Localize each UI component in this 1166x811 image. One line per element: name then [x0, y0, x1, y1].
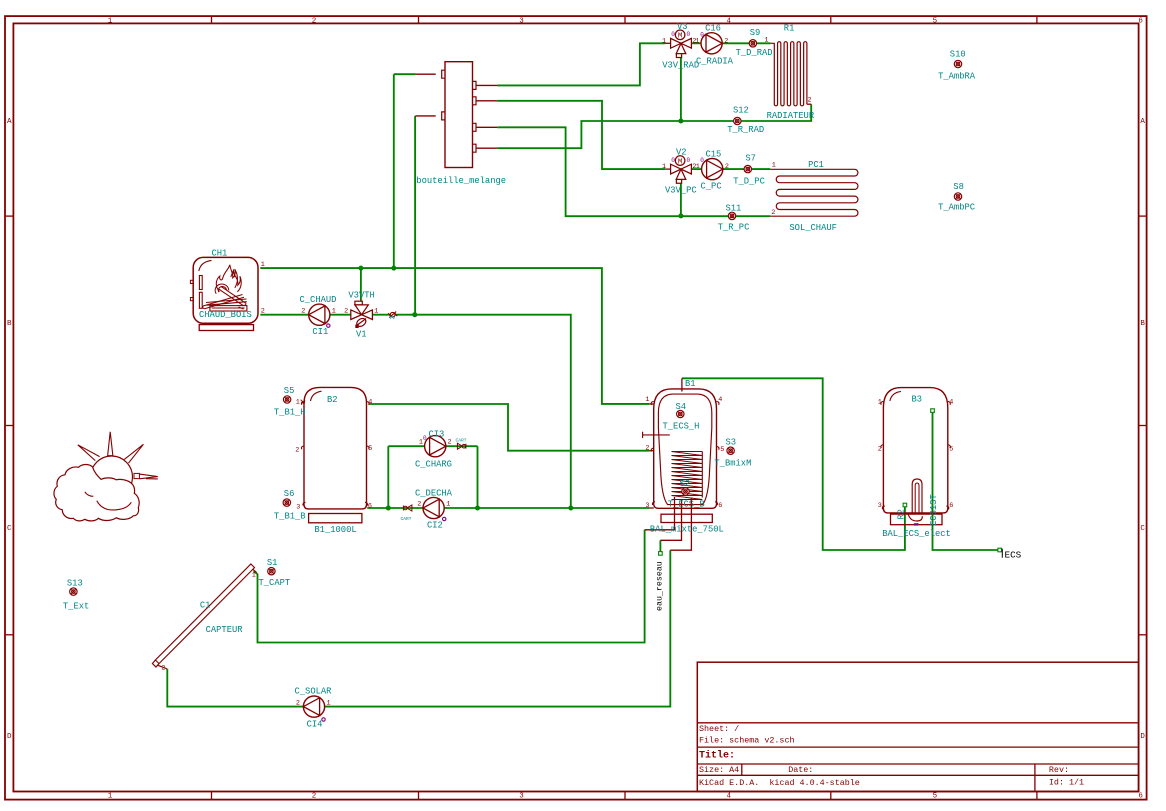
svg-text:KiCad E.D.A. kicad 4.0.4-stab: KiCad E.D.A. kicad 4.0.4-stable — [699, 778, 860, 788]
svg-text:M: M — [678, 159, 683, 167]
svg-text:5: 5 — [949, 445, 953, 453]
svg-text:T_AmbRA: T_AmbRA — [938, 71, 976, 81]
wire collector C1 pin 2 down to solar return — [167, 669, 303, 707]
svg-text:1: 1 — [764, 37, 768, 45]
valve V3 V3V_RAD — [665, 30, 691, 58]
svg-text:T_Ext: T_Ext — [63, 602, 89, 612]
svg-text:2: 2 — [295, 446, 299, 454]
svg-text:S9: S9 — [750, 28, 761, 38]
svg-text:0: 0 — [671, 157, 675, 164]
svg-text:T_ECS_H: T_ECS_H — [663, 422, 700, 432]
svg-text:T_D_RAD: T_D_RAD — [736, 48, 773, 58]
svg-text:1: 1 — [252, 571, 256, 579]
wire charge loop left vertical — [387, 446, 389, 508]
svg-text:6: 6 — [949, 502, 953, 510]
sensor S1 T_CAPT — [268, 568, 275, 575]
svg-text:2: 2 — [312, 792, 317, 800]
wire floor return T_R_PC to bottle pin R3 — [497, 127, 770, 216]
svg-text:M: M — [678, 33, 683, 41]
svg-text:2: 2 — [261, 308, 265, 316]
svg-text:1: 1 — [662, 37, 666, 45]
svg-text:Id: 1/1: Id: 1/1 — [1049, 778, 1084, 788]
tank B3 BAL_ECS_elect — [881, 388, 950, 526]
svg-text:C_CHARG: C_CHARG — [415, 459, 452, 469]
svg-text:2: 2 — [645, 444, 649, 452]
svg-text:C_PC: C_PC — [701, 182, 722, 192]
junction discharge line / charge right vertical — [475, 506, 480, 511]
wire solar return pump CI4 to tank B1 coil outlet — [325, 550, 671, 706]
svg-text:D: D — [7, 733, 12, 741]
svg-text:4: 4 — [949, 398, 953, 406]
check valve CAR (charge) — [457, 443, 466, 449]
svg-text:C1: C1 — [200, 601, 211, 611]
svg-text:1: 1 — [696, 163, 700, 171]
svg-text:1: 1 — [261, 261, 265, 269]
pump C15 C_PC — [702, 159, 723, 180]
svg-text:1: 1 — [108, 792, 113, 800]
svg-text:C: C — [1140, 525, 1145, 533]
wire valve V2 bottom port riser — [680, 184, 682, 216]
svg-text:CI4: CI4 — [307, 720, 323, 730]
svg-text:S8: S8 — [953, 182, 964, 192]
svg-text:V3VTH: V3VTH — [348, 291, 374, 301]
svg-text:CAR?: CAR? — [401, 516, 412, 522]
sensor S10 T_AmbRA — [954, 60, 961, 67]
svg-text:C15: C15 — [706, 150, 722, 160]
valve V2 V3V_PC — [665, 156, 691, 184]
svg-text:3: 3 — [390, 316, 397, 320]
svg-text:C: C — [7, 525, 12, 533]
svg-text:V1: V1 — [356, 330, 367, 340]
svg-text:S10: S10 — [950, 50, 966, 60]
svg-text:0: 0 — [687, 31, 691, 38]
junction discharge line / charge left vertical — [386, 506, 391, 511]
svg-text:6: 6 — [1138, 18, 1143, 26]
svg-text:1: 1 — [662, 163, 666, 171]
svg-text:CHAUD_BOIS: CHAUD_BOIS — [199, 310, 252, 320]
svg-text:6: 6 — [1138, 792, 1143, 800]
svg-text:CI1: CI1 — [312, 327, 328, 337]
pump C16 C_RADIA — [701, 33, 722, 54]
svg-text:A: A — [7, 118, 12, 126]
sensor S7 T_D_PC — [744, 165, 751, 172]
svg-text:4: 4 — [368, 398, 372, 406]
svg-text:Date:: Date: — [788, 765, 813, 775]
svg-text:C_CHAUD: C_CHAUD — [300, 295, 337, 305]
wire discharge line pump CI2 to tank B1 pin 3 — [444, 507, 649, 509]
svg-text:S1: S1 — [267, 558, 278, 568]
svg-text:1: 1 — [419, 439, 423, 447]
svg-text:C_SOLAR: C_SOLAR — [295, 687, 333, 697]
wire between valve V2 and pump C15 — [692, 168, 702, 170]
svg-text:0: 0 — [423, 435, 427, 442]
wire floor supply from bottle pin R2 to valve V2 — [497, 101, 665, 169]
svg-text:C16: C16 — [705, 23, 721, 33]
svg-text:Title:: Title: — [699, 750, 735, 762]
svg-text:B1_1000L: B1_1000L — [314, 525, 356, 535]
svg-text:Rev:: Rev: — [1049, 765, 1069, 775]
svg-text:B2: B2 — [327, 395, 338, 405]
mixing bottle bouteille_melange — [415, 62, 497, 168]
svg-text:2: 2 — [878, 445, 882, 453]
sensor S11 T_R_PC — [728, 212, 735, 219]
junction boiler supply / V1 top riser — [358, 266, 363, 271]
wire valve V1 output to down elbow — [372, 315, 571, 508]
wire radiator supply from bottle pin R1 to valve V3 — [497, 43, 665, 85]
solar collector C1 CAPTEUR — [152, 564, 256, 669]
svg-text:T_B1_H: T_B1_H — [274, 407, 306, 417]
svg-text:S5: S5 — [284, 386, 295, 396]
svg-text:B: B — [7, 320, 12, 328]
svg-text:A: A — [1140, 118, 1145, 126]
sensor S2 T_ECS_B — [682, 488, 689, 495]
svg-text:2: 2 — [771, 209, 775, 217]
svg-text:T_BmixM: T_BmixM — [714, 458, 751, 468]
sun — [78, 432, 158, 498]
sensor S12 T_R_RAD — [734, 117, 741, 124]
junction boiler supply / bottle L1 riser — [391, 266, 396, 271]
svg-text:CI3: CI3 — [429, 429, 445, 439]
sensor S3 T_BmixM — [727, 447, 734, 454]
svg-text:0: 0 — [687, 157, 691, 164]
wire eau_reseau stub under tank B1 — [659, 540, 661, 552]
svg-text:R2: R2 — [897, 509, 907, 520]
floor coil PC1 SOL_CHAUF — [770, 169, 858, 216]
svg-text:D: D — [1140, 733, 1145, 741]
svg-text:1: 1 — [878, 398, 882, 406]
svg-text:S13: S13 — [67, 579, 83, 589]
tank B1 BAL_mixte_750L — [643, 378, 719, 550]
svg-text:4: 4 — [718, 396, 722, 404]
pump CI2 C_DECHA — [423, 497, 444, 518]
junction radiator return / V3 riser — [678, 119, 683, 124]
purge valve 3 — [388, 312, 397, 318]
svg-text:6: 6 — [718, 502, 722, 510]
wire tank B2 pin 4 to tank B1 pin 2 — [369, 404, 650, 451]
svg-text:SOL_CHAUF: SOL_CHAUF — [789, 223, 837, 233]
wire valve V3 bottom port riser — [680, 58, 682, 121]
svg-text:1: 1 — [695, 37, 699, 45]
sensor S13 T_Ext — [70, 588, 77, 595]
svg-text:2: 2 — [344, 308, 348, 316]
svg-text:BAL_mixte_750L: BAL_mixte_750L — [650, 525, 724, 535]
wire tank B1 hot water out to tank B3 — [682, 378, 905, 550]
wire collector C1 pin 1 to tank B1 coil inlet — [254, 530, 645, 643]
global label ECS — [1002, 549, 1021, 561]
pump CI1 C_CHAUD — [309, 304, 330, 325]
wire boiler CH1 supply to tank B1 pin 1 — [260, 268, 649, 404]
junction floor return / V2 riser — [678, 213, 683, 218]
svg-text:5: 5 — [720, 446, 724, 454]
svg-text:RADIATEUR: RADIATEUR — [767, 111, 815, 121]
svg-text:3: 3 — [645, 502, 649, 510]
svg-text:1: 1 — [296, 398, 300, 406]
svg-text:2: 2 — [808, 97, 812, 105]
cloud — [54, 464, 139, 520]
wire radiator return T_R_RAD to bottle pin R4 — [497, 104, 811, 148]
wire tank B3 outlet to ECS label — [933, 412, 998, 550]
svg-text:1: 1 — [374, 308, 378, 316]
svg-text:2: 2 — [301, 308, 305, 316]
svg-text:2: 2 — [448, 439, 452, 447]
svg-text:T_ECS_B: T_ECS_B — [668, 500, 705, 510]
svg-text:S11: S11 — [726, 204, 742, 214]
svg-text:CI2: CI2 — [427, 520, 443, 530]
wire pump CI1 to valve V1 — [330, 314, 351, 316]
sensor S4 T_ECS_H — [677, 410, 684, 417]
svg-text:V2: V2 — [676, 148, 687, 158]
svg-text:S12: S12 — [733, 106, 749, 116]
svg-text:T_B1_B: T_B1_B — [274, 511, 306, 521]
wire charge loop upper line through pump CI3 — [388, 445, 477, 447]
wire bottle pin L2 down to valve V1 output line — [414, 116, 416, 315]
wire discharge line B2 pin 6 to pump CI2 — [367, 507, 423, 509]
svg-text:3: 3 — [519, 18, 524, 26]
svg-text:B: B — [1140, 320, 1145, 328]
svg-text:S3: S3 — [726, 438, 737, 448]
svg-text:B3: B3 — [912, 395, 923, 405]
svg-text:3: 3 — [878, 502, 882, 510]
svg-text:V3V_PC: V3V_PC — [665, 186, 697, 196]
sensor S6 T_B1_B — [283, 499, 290, 506]
svg-text:File: schema v2.sch: File: schema v2.sch — [699, 736, 795, 746]
svg-text:T_AmbPC: T_AmbPC — [938, 203, 975, 213]
pump CI3 C_CHARG — [425, 436, 446, 457]
svg-text:S6: S6 — [284, 489, 295, 499]
svg-text:2: 2 — [296, 699, 300, 707]
svg-text:Size: A4: Size: A4 — [699, 765, 739, 775]
svg-text:1: 1 — [772, 162, 776, 170]
valve V1 V3VTH — [351, 301, 373, 328]
svg-text:5: 5 — [933, 18, 938, 26]
svg-text:2: 2 — [417, 500, 421, 508]
svg-text:ECS1ST: ECS1ST — [929, 494, 939, 526]
sensor S9 T_D_RAD — [749, 40, 756, 47]
svg-text:ECS: ECS — [1005, 550, 1022, 561]
svg-text:S4: S4 — [676, 402, 687, 412]
svg-text:1: 1 — [108, 18, 113, 26]
svg-text:B1: B1 — [685, 379, 696, 389]
svg-text:R1: R1 — [784, 23, 795, 33]
svg-text:BAL_ECS_elect: BAL_ECS_elect — [882, 529, 951, 539]
svg-text:3: 3 — [519, 792, 524, 800]
svg-text:4: 4 — [727, 792, 732, 800]
radiator R1 RADIATEUR — [771, 42, 812, 106]
wire pump C16 to radiator R1 pin 1 — [722, 42, 770, 44]
svg-text:5: 5 — [368, 445, 372, 453]
wire bottle pin L1 stub — [394, 73, 416, 75]
wire between valve V3 and pump C16 — [692, 42, 701, 44]
svg-text:CAR?: CAR? — [456, 437, 467, 443]
svg-text:V3V_RAD: V3V_RAD — [662, 61, 699, 71]
wire riser to valve V1 top port — [360, 268, 362, 301]
wire pump C15 to floor coil PC1 pin 1 — [723, 168, 770, 170]
pump CI4 C_SOLAR — [303, 696, 324, 717]
svg-text:T_R_PC: T_R_PC — [718, 222, 750, 232]
svg-text:CAPTEUR: CAPTEUR — [206, 625, 244, 635]
svg-text:2: 2 — [312, 18, 317, 26]
svg-text:2: 2 — [161, 665, 165, 673]
wire charge loop right vertical — [477, 446, 479, 508]
svg-text:S7: S7 — [745, 154, 756, 164]
svg-text:bouteille_melange: bouteille_melange — [416, 176, 506, 186]
svg-text:2: 2 — [724, 37, 728, 45]
svg-text:1: 1 — [327, 699, 331, 707]
wire bottle pin L1 down to boiler supply line — [393, 74, 395, 268]
svg-text:Sheet: /: Sheet: / — [699, 724, 739, 734]
svg-text:CH1: CH1 — [212, 249, 228, 259]
boiler CH1 CHAUD_BOIS — [190, 257, 258, 330]
svg-text:2: 2 — [725, 163, 729, 171]
check valve CAR (discharge) — [403, 505, 412, 511]
svg-text:PC1: PC1 — [808, 160, 824, 170]
sensor S8 T_AmbPC — [954, 193, 961, 200]
svg-text:6: 6 — [368, 502, 372, 510]
svg-text:3: 3 — [296, 503, 300, 511]
svg-text:T_R_RAD: T_R_RAD — [727, 125, 764, 135]
svg-text:C_DECHA: C_DECHA — [415, 488, 453, 498]
junction V1 output / bottle L2 riser — [412, 312, 417, 317]
sensor S5 T_B1_H — [283, 396, 290, 403]
tank B2 B1_1000L — [301, 387, 369, 522]
svg-text:0: 0 — [671, 31, 675, 38]
svg-text:5: 5 — [933, 792, 938, 800]
svg-text:1: 1 — [446, 500, 450, 508]
svg-text:4: 4 — [727, 18, 732, 26]
svg-text:1: 1 — [332, 308, 336, 316]
svg-text:eau_reseau: eau_reseau — [656, 561, 665, 611]
svg-text:C_RADIA: C_RADIA — [696, 57, 734, 67]
junction discharge line / V1 drop — [568, 506, 573, 511]
wire boiler CH1 return to pump CI1 — [260, 314, 309, 316]
svg-text:T_CAPT: T_CAPT — [259, 578, 291, 588]
svg-text:T_D_PC: T_D_PC — [733, 177, 765, 187]
svg-text:S2: S2 — [680, 479, 691, 489]
svg-text:1: 1 — [645, 396, 649, 404]
title block — [697, 662, 1138, 791]
